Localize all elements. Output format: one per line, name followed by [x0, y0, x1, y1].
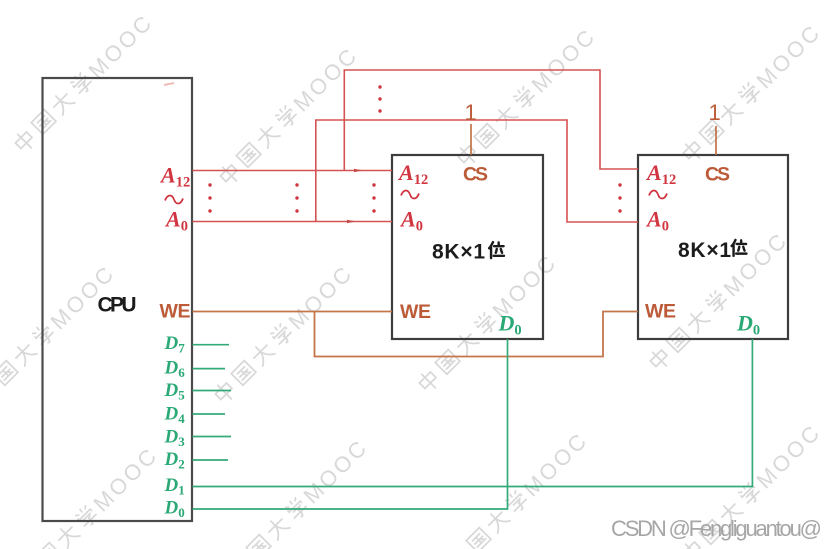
CPU D6 stub [193, 368, 226, 370]
wire U1 CS stub [470, 124, 472, 155]
svg-text:8K×1: 8K×1 [678, 239, 731, 262]
wire second bus A0 [315, 119, 567, 121]
CPU box [43, 78, 193, 521]
ellipsis dots address CPU-U1 col2 [295, 183, 298, 212]
wire WE CPU to U1 [193, 311, 393, 313]
RAM chip U2 box [638, 155, 788, 339]
wire WE branch to U2 [315, 312, 639, 357]
red artifact mark [164, 83, 174, 85]
svg-text:CS: CS [463, 164, 488, 186]
wire second bus drop to U2 A0 [567, 119, 638, 222]
wire A12 CPU to U1 [193, 170, 393, 172]
wire U2 CS stub [715, 126, 717, 155]
CPU D4 stub [193, 413, 226, 415]
CPU D2 stub [193, 459, 229, 461]
CPU D5 stub [193, 390, 232, 392]
ellipsis dots address CPU-U1 col3 [372, 183, 375, 212]
svg-text:CPU: CPU [98, 294, 137, 317]
CPU D7 stub [193, 344, 230, 346]
ellipsis dots top bus [378, 85, 381, 112]
U2 tilde [649, 190, 667, 198]
junction tick on A0 wire [347, 220, 356, 223]
svg-text:CS: CS [705, 164, 730, 186]
U1 label 8K×1位 [432, 241, 504, 264]
wire D0 CPU to U1 D0 [193, 339, 508, 509]
U1 tilde [401, 190, 419, 198]
svg-text:1: 1 [709, 100, 721, 125]
RAM chip U1 box [392, 155, 543, 339]
svg-text:8K×1: 8K×1 [432, 241, 485, 264]
ellipsis dots U1-U2 [618, 183, 621, 212]
svg-text:WE: WE [400, 301, 431, 323]
wire A0 riser to second bus [315, 120, 317, 222]
wire top bus A12 [344, 69, 601, 71]
ellipsis dots address CPU-U1 col1 [208, 183, 211, 212]
svg-text:1: 1 [465, 100, 477, 125]
junction tick on A12 wire [354, 169, 363, 172]
U2 label 8K×1位 [678, 239, 746, 262]
CPU D3 stub [193, 436, 232, 438]
wire top bus drop to U2 A12 [600, 69, 638, 169]
svg-text:CSDN @Fengliguantou@: CSDN @Fengliguantou@ [611, 516, 822, 541]
wire D1 CPU to U2 D0 [193, 339, 753, 487]
CPU pin tilde [165, 195, 183, 203]
wire A0 CPU to U1 [193, 221, 393, 223]
svg-text:WE: WE [160, 301, 191, 323]
wire A12 riser to top bus [343, 70, 345, 171]
svg-text:WE: WE [645, 301, 676, 323]
